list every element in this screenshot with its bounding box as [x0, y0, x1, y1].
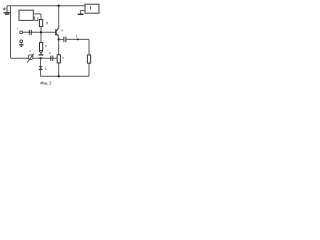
label 9 — [45, 68, 47, 70]
wire branch to right rail — [66, 39, 89, 55]
wire top supply bus — [7, 5, 85, 7]
wire box1 terminal — [81, 10, 85, 14]
wire left rail — [10, 6, 12, 59]
node base junction — [40, 31, 42, 33]
label 10 — [75, 35, 77, 37]
ground input — [19, 45, 23, 46]
block box 1 (earphone) — [85, 4, 99, 13]
ground box1 — [78, 13, 84, 15]
capacitor C1 top-left lead — [6, 6, 8, 13]
wire terminal to ground — [20, 43, 22, 45]
block box 2 (oscillator) — [19, 10, 33, 20]
node top junction — [58, 5, 60, 7]
node on branch wire — [77, 38, 79, 40]
wire emitter down — [58, 36, 60, 76]
transistor Q1 — [56, 28, 59, 36]
resistor R3 — [39, 20, 42, 27]
label comma — [46, 22, 49, 24]
node emitter branch — [58, 38, 60, 40]
label 8 — [49, 52, 50, 53]
transistor emitter arrow — [57, 35, 59, 37]
label 4 — [29, 50, 30, 51]
label 1 — [89, 6, 91, 9]
wire diode branch — [40, 58, 42, 76]
capacitor C2 (input coupling) — [29, 30, 31, 35]
node lower junction — [39, 57, 41, 59]
wire branch right — [59, 38, 64, 40]
capacitor C1 plus sign — [3, 7, 6, 10]
label 3 — [61, 29, 63, 31]
label 2 — [35, 16, 38, 20]
terminal circle input — [20, 31, 23, 34]
wire base line — [23, 31, 56, 33]
ground top-left — [4, 13, 11, 15]
label 6 — [45, 45, 47, 47]
wire resistor to base node — [40, 27, 42, 33]
capacitor C4 (bypass) — [64, 37, 66, 43]
label 7 — [62, 57, 64, 59]
wire base node down — [40, 32, 42, 42]
terminal circle lower — [20, 40, 23, 43]
resistor R7 (emitter) — [57, 55, 60, 63]
diode D1 — [39, 66, 43, 69]
potentiometer arrow — [27, 54, 33, 63]
wire right rail to bus — [88, 63, 90, 76]
resistor R8 right — [87, 55, 90, 63]
wire bottom-left horizontal — [11, 57, 58, 59]
capacitor C5 (series lower) — [51, 56, 53, 61]
wire box2 output — [33, 14, 41, 20]
wire bottom bus — [41, 75, 89, 77]
trimmer Y symbol — [39, 51, 43, 54]
svg-text:Фиг. 2: Фиг. 2 — [40, 80, 51, 85]
wire collector drop — [58, 6, 60, 29]
resistor R6 (below base) — [40, 43, 43, 51]
plate bar — [39, 54, 44, 56]
node bottom junction — [58, 75, 60, 77]
potentiometer circle — [28, 55, 33, 60]
